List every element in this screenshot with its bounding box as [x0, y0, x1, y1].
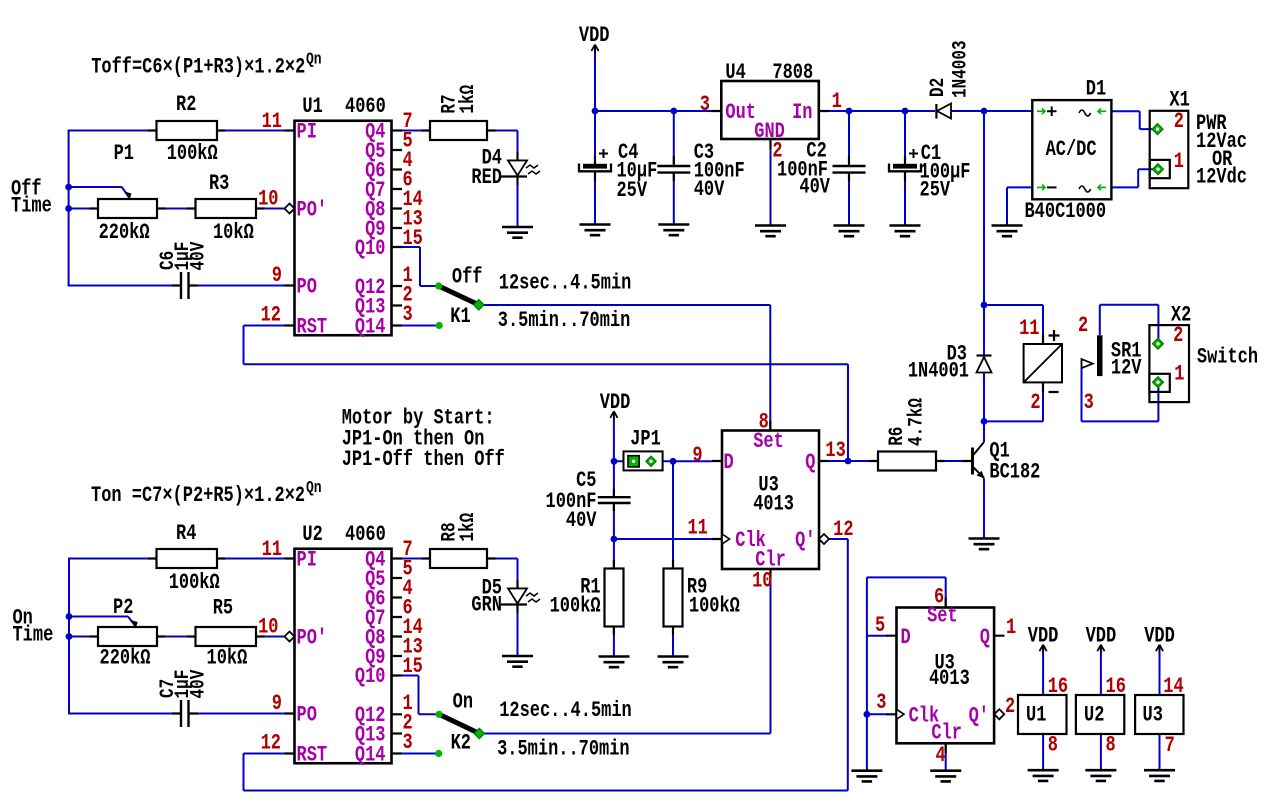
svg-text:R3: R3: [209, 171, 229, 196]
svg-text:40V: 40V: [566, 508, 597, 533]
wire VDD column / C5 / Clk row / R1: [614, 417, 712, 657]
svg-text:D1: D1: [1086, 77, 1106, 102]
relay K coil body: [1024, 330, 1062, 392]
svg-text:PO': PO': [297, 626, 328, 651]
svg-text:15: 15: [403, 226, 423, 251]
VDD symbol (U3 pwr): [1156, 645, 1163, 653]
svg-text:11: 11: [688, 516, 708, 541]
ground (D5): [502, 656, 533, 667]
junction relay bottom: [981, 418, 988, 425]
svg-text:RST: RST: [297, 743, 328, 768]
svg-text:2: 2: [1005, 694, 1015, 719]
capacitor C2 100nF plates: [833, 166, 866, 173]
svg-text:9: 9: [692, 443, 702, 468]
svg-text:6: 6: [934, 585, 944, 610]
svg-text:Toff=C6×(P1+R3)×1.2×2: Toff=C6×(P1+R3)×1.2×2: [91, 54, 305, 79]
svg-text:8: 8: [759, 409, 769, 434]
junction U3b Clk: [864, 711, 871, 718]
junction VDD/C4: [592, 108, 599, 115]
svg-text:5: 5: [875, 613, 885, 638]
jumper JP1 body: [624, 451, 663, 470]
U3a Clk triangle: [722, 534, 730, 544]
VDD symbol (top rail): [591, 45, 598, 53]
svg-text:VDD: VDD: [1028, 623, 1059, 648]
svg-text:R5: R5: [213, 596, 233, 621]
wire U3 Q (13) to R6 to Q1 base: [829, 460, 963, 462]
connector X1 pad 1: [1153, 164, 1164, 175]
junction C5/Clk: [611, 536, 618, 543]
wire U1/U2/U3 power pins: [1043, 648, 1159, 771]
svg-text:Out: Out: [725, 100, 756, 125]
connector X2 pad 2: [1153, 338, 1164, 349]
svg-text:100kΩ: 100kΩ: [689, 593, 740, 618]
D1 green pin arrows: [1037, 109, 1106, 191]
svg-text:1: 1: [832, 89, 842, 114]
svg-text:VDD: VDD: [1086, 623, 1117, 648]
arrowhead of P2 wiper: [131, 620, 138, 628]
junction C1: [902, 108, 909, 115]
svg-text:40V: 40V: [799, 175, 830, 200]
svg-text:1N4003: 1N4003: [950, 40, 972, 98]
wire D1 bridge to X1 connector: [1007, 111, 1154, 225]
wire U1 RST to U3 Q (pin13) net: [244, 326, 849, 462]
K2 bottom contact (node): [435, 750, 442, 757]
junction D2/D1: [981, 108, 988, 115]
svg-text:12Vdc: 12Vdc: [1196, 165, 1247, 190]
svg-text:P2: P2: [113, 595, 133, 620]
svg-text:12V: 12V: [1111, 356, 1142, 381]
svg-text:VDD: VDD: [1144, 623, 1175, 648]
junction U3a Q/R6: [845, 458, 852, 465]
svg-text:10: 10: [752, 569, 772, 594]
junction On-time bus a: [66, 613, 73, 620]
IC U1 4060 body: [295, 121, 392, 336]
junction relay top: [981, 302, 988, 309]
IC U4 7808 body: [721, 81, 819, 139]
resistor R2 100k body: [157, 121, 218, 140]
resistor R4 100k body: [157, 549, 218, 568]
D1 minus mark: [1047, 186, 1057, 188]
svg-text:In: In: [792, 100, 812, 125]
ground (U1 pwr): [1028, 770, 1059, 781]
LED D4 RED: [501, 161, 540, 177]
svg-text:10: 10: [258, 615, 278, 640]
svg-text:Q': Q': [795, 528, 815, 553]
svg-text:9: 9: [272, 691, 282, 716]
svg-text:3.5min..70min: 3.5min..70min: [498, 308, 631, 333]
svg-text:3: 3: [403, 302, 413, 327]
wire relay coil branch: [984, 305, 1043, 421]
svg-text:100kΩ: 100kΩ: [550, 593, 601, 618]
wire U1 Q14 to K1 bottom contact: [392, 325, 438, 327]
ground (Q1 emitter): [969, 539, 1000, 550]
svg-text:B40C1000: B40C1000: [1025, 199, 1107, 224]
svg-text:R4: R4: [176, 521, 197, 546]
svg-text:K1: K1: [450, 304, 470, 329]
svg-text:4: 4: [936, 743, 946, 768]
ground (U4 GND): [755, 226, 786, 237]
wire +12V vertical rail (D2 cathode down to Q1 collector): [983, 111, 985, 539]
ground (U3b Clr): [930, 771, 961, 782]
K2 top contact (node): [435, 711, 442, 718]
svg-text:10kΩ: 10kΩ: [207, 646, 248, 671]
VDD symbol (U1 pwr): [1040, 645, 1047, 653]
capacitor C1 100uF body: [889, 149, 921, 171]
svg-text:11: 11: [262, 537, 282, 562]
svg-text:3: 3: [700, 92, 710, 117]
connector X1 body: [1150, 111, 1189, 188]
svg-text:U2: U2: [1084, 703, 1104, 728]
junction JP1 right: [670, 458, 677, 465]
svg-text:8: 8: [1106, 733, 1116, 758]
JP1 pad 2 (round): [646, 456, 656, 466]
pin stubs (black component pins): [90, 111, 1044, 754]
svg-text:100kΩ: 100kΩ: [167, 141, 218, 166]
svg-text:2: 2: [1174, 109, 1184, 134]
svg-text:4013: 4013: [753, 492, 794, 517]
wire U3 Clr (10) to K2 common: [481, 569, 771, 734]
ground (U3 pwr): [1144, 770, 1175, 781]
svg-text:4013: 4013: [929, 666, 970, 691]
diode D2 1N4003: [936, 104, 951, 119]
power block U2 body: [1076, 695, 1124, 734]
svg-text:D: D: [901, 625, 911, 650]
diode D3 1N4001: [977, 356, 992, 373]
svg-text:PI: PI: [297, 548, 317, 573]
svg-text:PI: PI: [297, 120, 317, 145]
svg-text:PO: PO: [297, 703, 318, 728]
svg-text:P1: P1: [114, 141, 134, 166]
svg-text:11: 11: [262, 109, 282, 134]
svg-text:10: 10: [258, 187, 278, 212]
LED D5 GRN: [501, 589, 540, 605]
arrowhead of P1 wiper: [125, 192, 132, 200]
junction Off-time bus a: [65, 184, 72, 191]
svg-text:VDD: VDD: [579, 23, 610, 48]
svg-text:12sec..4.5min: 12sec..4.5min: [499, 698, 632, 723]
IC U2 4060 body: [295, 549, 392, 764]
resistor R7 1k body: [430, 121, 487, 140]
K1 top contact (node): [435, 282, 442, 289]
ground (R9): [658, 657, 689, 668]
SR1 movable contact: [1082, 359, 1093, 368]
wire JP1 to D pin (9) and R9 column: [614, 461, 712, 656]
svg-text:7: 7: [1165, 733, 1175, 758]
svg-text:VDD: VDD: [600, 390, 631, 415]
capacitor C6 1uF plates: [181, 272, 189, 299]
svg-text:15: 15: [403, 654, 423, 679]
svg-text:1: 1: [1174, 149, 1184, 174]
IC U3 4013 body (second half): [897, 608, 995, 744]
svg-text:Qn: Qn: [306, 477, 322, 497]
svg-text:40V: 40V: [188, 242, 210, 271]
wire U2 Q10 to K2 top contact: [392, 676, 437, 715]
wire U1 Q4 to R7 to D4: [392, 131, 518, 228]
svg-text:14: 14: [1163, 674, 1184, 699]
svg-text:On: On: [453, 690, 473, 715]
svg-text:Q: Q: [805, 450, 815, 475]
svg-text:RED: RED: [471, 165, 502, 190]
svg-text:Time: Time: [11, 194, 52, 219]
svg-text:13: 13: [825, 438, 845, 463]
svg-text:Q14: Q14: [355, 743, 386, 768]
K1 common contact: [474, 300, 484, 310]
svg-text:D2: D2: [928, 78, 950, 97]
svg-text:Q: Q: [980, 625, 990, 650]
U3b Q' pin diamond: [994, 709, 1004, 719]
svg-text:12: 12: [261, 731, 281, 756]
capacitor C4 10uF body: [579, 149, 611, 171]
wire SR1 reed switch to X2: [1082, 305, 1159, 422]
svg-text:12: 12: [833, 517, 853, 542]
wire Off-time RC network (left bus, R2/P1/R3/C6 rows): [69, 130, 295, 287]
svg-text:4.7kΩ: 4.7kΩ: [906, 398, 928, 446]
JP1 pad 1 (square): [628, 456, 639, 467]
capacitor C5 100nF plates: [598, 497, 631, 503]
svg-text:1: 1: [1174, 362, 1184, 387]
ground (C3): [658, 225, 689, 236]
svg-text:3: 3: [876, 690, 886, 715]
potentiometer P2 220k body: [98, 627, 157, 646]
ground (C1): [890, 226, 921, 237]
svg-text:Clr: Clr: [931, 721, 962, 746]
svg-text:4060: 4060: [345, 522, 386, 547]
resistor R1 100k body: [605, 569, 624, 627]
D1 tilde marks: [1079, 110, 1091, 192]
connector X2 body: [1149, 325, 1189, 402]
ground (U2 pwr): [1085, 770, 1116, 781]
svg-text:U1: U1: [302, 94, 322, 119]
wire K1 common to U3 Set (pin8): [481, 305, 771, 431]
VDD symbol (C5/JP1): [610, 411, 617, 419]
svg-text:PO: PO: [297, 275, 318, 300]
D1 plus mark: [1047, 107, 1057, 117]
junction On-time bus b: [66, 633, 73, 640]
ground (U3b Clk/D): [851, 771, 882, 782]
resistor R9 100k body: [664, 569, 683, 627]
svg-text:10kΩ: 10kΩ: [213, 220, 254, 245]
svg-text:Ton =C7×(P2+R5)×1.2×2: Ton =C7×(P2+R5)×1.2×2: [91, 483, 305, 508]
svg-text:16: 16: [1106, 674, 1126, 699]
wire On-time RC network (left bus, R4/P2/R5/C7 rows): [69, 558, 295, 715]
resistor R8 1k body: [430, 549, 487, 568]
ground (C2): [834, 226, 865, 237]
ground (D1 minus): [992, 226, 1023, 237]
resistor R6 4.7k body: [878, 452, 936, 471]
svg-text:2: 2: [1030, 390, 1040, 415]
U2 PO' pin diamond: [285, 632, 295, 642]
power block U3 body: [1135, 695, 1183, 734]
svg-text:GRN: GRN: [471, 593, 502, 618]
svg-text:3: 3: [403, 730, 413, 755]
svg-text:16: 16: [1048, 674, 1068, 699]
svg-text:9: 9: [272, 263, 282, 288]
U3b Clk triangle: [897, 709, 905, 719]
bridge rectifier D1 body: [1032, 100, 1111, 199]
connector X2 pad 1: [1153, 377, 1164, 388]
svg-text:40V: 40V: [694, 177, 725, 202]
wire VDD power rail (top): [595, 47, 1032, 226]
svg-text:100kΩ: 100kΩ: [169, 570, 220, 595]
svg-text:D: D: [724, 450, 734, 475]
svg-text:PO': PO': [297, 198, 328, 223]
svg-text:Qn: Qn: [306, 49, 322, 69]
svg-text:Q10: Q10: [355, 664, 386, 689]
svg-text:11: 11: [1019, 316, 1039, 341]
junction C3: [670, 108, 677, 115]
svg-text:3.5min..70min: 3.5min..70min: [497, 737, 630, 762]
resistor R5 10k body: [196, 627, 257, 646]
svg-text:Off: Off: [452, 265, 483, 290]
svg-text:Q10: Q10: [355, 236, 386, 261]
svg-text:1kΩ: 1kΩ: [458, 513, 480, 542]
svg-text:R2: R2: [176, 92, 196, 117]
wire U3 Q' (12) to U2 RST: [244, 539, 848, 791]
svg-text:12: 12: [261, 303, 281, 328]
svg-text:25V: 25V: [617, 178, 648, 203]
K1 bottom contact (node): [436, 322, 443, 329]
wire U2 Q4 to R8 to D5: [392, 559, 518, 657]
ground (D4): [502, 227, 533, 238]
svg-text:1: 1: [1006, 615, 1016, 640]
svg-text:4060: 4060: [345, 94, 386, 119]
U3a Q' pin diamond: [819, 534, 829, 544]
svg-text:U1: U1: [1026, 703, 1046, 728]
ground (C4): [580, 225, 611, 236]
svg-text:220kΩ: 220kΩ: [99, 220, 150, 245]
svg-text:12sec..4.5min: 12sec..4.5min: [499, 271, 632, 296]
svg-text:Q': Q': [969, 704, 989, 729]
svg-text:2: 2: [1078, 313, 1088, 338]
junction JP1 left: [611, 458, 618, 465]
wire U1 Q10 to K1 top contact: [392, 247, 437, 286]
resistor R3 10k body: [196, 199, 257, 218]
svg-text:U4: U4: [725, 60, 746, 85]
svg-text:8: 8: [1048, 733, 1058, 758]
K2 common contact: [474, 728, 484, 738]
svg-text:JP1: JP1: [630, 427, 661, 452]
svg-text:1kΩ: 1kΩ: [458, 85, 480, 114]
svg-text:AC/DC: AC/DC: [1046, 137, 1097, 162]
svg-text:JP1-Off then Off: JP1-Off then Off: [342, 447, 505, 472]
switch K2 lever: [439, 714, 479, 733]
wire U2 Q14 to K2 bottom contact: [392, 753, 437, 755]
connector X1 pad 2: [1152, 124, 1163, 135]
wire U3b Set/D/Clk grounded loop: [867, 577, 946, 770]
svg-text:U3: U3: [1143, 703, 1163, 728]
svg-text:40V: 40V: [188, 670, 210, 699]
svg-text:U2: U2: [302, 522, 322, 547]
ground (R1): [599, 657, 630, 668]
svg-text:Switch: Switch: [1197, 345, 1258, 370]
junction Off-time bus b: [65, 205, 72, 212]
switch K1 lever: [439, 286, 479, 305]
U1 PO' pin diamond: [285, 204, 295, 214]
transistor Q1 BC182: [973, 442, 985, 479]
svg-text:2: 2: [1173, 323, 1183, 348]
svg-text:3: 3: [1084, 390, 1094, 415]
svg-text:25V: 25V: [920, 178, 951, 203]
svg-text:Time: Time: [13, 623, 54, 648]
IC U3 4013 body (first half): [722, 431, 819, 570]
VDD symbol (U2 pwr): [1097, 645, 1104, 653]
svg-text:7808: 7808: [772, 60, 813, 85]
SR1 reed contact bar: [1097, 335, 1103, 376]
svg-text:Q14: Q14: [355, 315, 386, 340]
svg-text:220kΩ: 220kΩ: [100, 646, 151, 671]
power block U1 body: [1018, 695, 1067, 734]
capacitor C7 1uF plates: [181, 700, 189, 727]
svg-text:BC182: BC182: [989, 460, 1040, 485]
junction C2: [846, 108, 853, 115]
svg-text:K2: K2: [451, 731, 471, 756]
potentiometer P1 220k body: [98, 199, 157, 218]
svg-text:RST: RST: [297, 315, 328, 340]
svg-text:1N4001: 1N4001: [908, 359, 969, 384]
capacitor C3 100nF plates: [657, 166, 690, 173]
